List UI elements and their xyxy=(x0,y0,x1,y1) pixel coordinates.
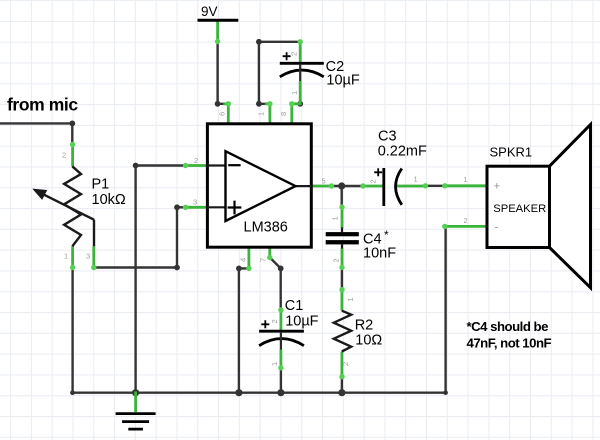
svg-text:C3: C3 xyxy=(378,128,397,144)
pin stub ground xyxy=(134,391,137,412)
svg-text:2: 2 xyxy=(194,156,198,165)
pin stub U1 pin6 xyxy=(223,104,228,124)
wire C2 pin1 to U1 pin8 xyxy=(292,103,300,105)
pin stub U1 pin5 xyxy=(311,185,331,188)
wire U1 pin7 to C1 pin2 xyxy=(270,258,281,311)
node endpoint C3 pin1 xyxy=(423,183,428,188)
speaker SPKR1 horn xyxy=(550,125,591,288)
wire SPKR1 pin2 to rail xyxy=(444,226,446,392)
svg-text:1: 1 xyxy=(64,252,68,261)
pin stub C1 pin1 xyxy=(279,350,282,368)
svg-text:2: 2 xyxy=(290,52,299,56)
svg-text:8: 8 xyxy=(279,112,288,116)
svg-text:2: 2 xyxy=(332,258,341,262)
pin stub U1 pin1 xyxy=(265,104,270,124)
node endpoint P1 pin2 xyxy=(70,142,75,147)
node endpoint C4 pin1 xyxy=(339,204,344,209)
pin stub R2 pin1 xyxy=(340,290,343,311)
svg-text:10nF: 10nF xyxy=(363,245,396,261)
node endpoint C1 pin1 xyxy=(278,365,283,370)
ground symbol xyxy=(116,414,156,430)
svg-text:-: - xyxy=(495,221,499,233)
capacitor C2 curved plate xyxy=(280,70,324,77)
capacitor C1 stem xyxy=(280,332,282,350)
wire C1 pin1 to rail xyxy=(280,368,282,393)
svg-text:6: 6 xyxy=(218,112,227,116)
wire R2 pin2 to rail xyxy=(341,377,343,393)
svg-text:LM386: LM386 xyxy=(244,220,288,236)
wire U1 pin5 to C3 pin2 xyxy=(331,185,363,187)
svg-text:2: 2 xyxy=(369,179,378,183)
pin stub C2 pin1 xyxy=(292,81,300,104)
svg-text:1: 1 xyxy=(257,112,266,116)
wire C2 pin2 to U1 pin1 xyxy=(259,42,300,104)
svg-text:*C4 should be: *C4 should be xyxy=(467,319,549,334)
node endpoint C4 pin2 xyxy=(339,265,344,270)
node bend rail left corner xyxy=(70,390,75,395)
wire U1 pin3 to P1 pin3 xyxy=(94,207,186,267)
svg-text:5: 5 xyxy=(322,177,326,186)
capacitor C4 top plate xyxy=(326,232,359,236)
pin stub 9V xyxy=(216,20,219,41)
node endpoint U1 pin2 xyxy=(183,163,188,168)
svg-text:1: 1 xyxy=(346,297,355,301)
node endpoint P1 pin3 xyxy=(91,265,96,270)
capacitor C1 plus plate xyxy=(259,330,304,333)
node bend pin7 jog xyxy=(278,266,284,272)
svg-text:10µF: 10µF xyxy=(285,313,318,329)
node bend C2 top-left xyxy=(256,39,262,45)
svg-text:3: 3 xyxy=(193,198,197,207)
capacitor C2 plus sign xyxy=(283,52,291,60)
speaker SPKR1 box xyxy=(487,166,550,247)
pin stub C1 pin2 xyxy=(279,310,282,331)
pin stub U1 pin7 xyxy=(268,247,271,257)
pin stub C3 pin1 xyxy=(397,185,426,188)
svg-text:2: 2 xyxy=(62,151,66,160)
svg-text:+: + xyxy=(494,181,500,193)
capacitor C2 stem xyxy=(299,64,301,81)
svg-text:SPEAKER: SPEAKER xyxy=(493,203,546,215)
node bend pin8 xyxy=(297,101,303,107)
svg-text:47nF, not 10nF: 47nF, not 10nF xyxy=(467,336,552,351)
node bend pin3 wire top xyxy=(174,204,180,210)
pin stub U1 pin2 xyxy=(186,164,208,167)
power symbol 9V xyxy=(198,19,239,22)
junction ground rail D xyxy=(338,389,345,396)
wire C3 pin1 to SPKR1 pin1 xyxy=(426,185,445,187)
pin stub C3 pin2 xyxy=(363,185,383,188)
op-amp U1 plus input mark xyxy=(228,201,242,215)
svg-text:9V: 9V xyxy=(201,4,218,19)
node endpoint U1 pin5 xyxy=(329,183,334,188)
svg-text:4: 4 xyxy=(239,258,248,262)
node endpoint R2 pin1 xyxy=(339,287,344,292)
node endpoint C3 pin2 xyxy=(360,183,365,188)
op-amp U1 minus input mark xyxy=(228,164,240,166)
capacitor C3 plus plate xyxy=(382,168,385,206)
pin stub R2 pin2 xyxy=(340,352,343,377)
capacitor C3 curved plate xyxy=(396,169,402,205)
node endpoint pin6 xyxy=(226,101,231,106)
pin stub U1 pin4 xyxy=(247,247,250,268)
junction ground rail C xyxy=(277,389,284,396)
node endpoint P1 pin1 xyxy=(70,265,75,270)
node endpoint pin8 xyxy=(289,101,294,106)
pin stub P1 pin3 xyxy=(92,246,95,267)
capacitor C3 plus sign xyxy=(374,168,382,176)
wire U1 pin4 to rail xyxy=(239,268,249,392)
svg-text:3: 3 xyxy=(86,252,90,261)
node endpoint C2 pin2 xyxy=(298,39,303,44)
wire C4 pin2 to R2 pin1 xyxy=(341,268,343,290)
pin stub C4 pin2 xyxy=(341,248,344,267)
node endpoint R2 pin2 xyxy=(339,374,344,379)
pin stub SPKR1 pin2 xyxy=(445,225,487,228)
capacitor C1 plus sign xyxy=(261,320,269,328)
svg-text:SPKR1: SPKR1 xyxy=(490,144,533,159)
wire P1 pin1 down to rail xyxy=(71,268,73,393)
potentiometer P1 zigzag xyxy=(64,166,81,246)
svg-text:1: 1 xyxy=(290,91,299,95)
svg-text:10Ω: 10Ω xyxy=(355,333,382,349)
node endpoint SPKR1 pin2 xyxy=(442,224,447,229)
node bend mic corner xyxy=(69,121,75,127)
svg-text:2: 2 xyxy=(270,319,279,323)
pin stub U1 pin3 xyxy=(186,206,208,209)
resistor R2 zigzag xyxy=(334,311,351,352)
node rail right end xyxy=(443,390,448,395)
svg-text:0.22mF: 0.22mF xyxy=(378,143,427,159)
wire U1 pin2 to ground rail xyxy=(136,166,186,393)
node bend 9V xyxy=(215,101,221,107)
svg-text:1: 1 xyxy=(270,362,279,366)
junction ground rail B xyxy=(235,389,242,396)
pin stub P1 pin1 xyxy=(71,246,74,267)
node endpoint U1 pin7 xyxy=(267,255,272,260)
svg-text:1: 1 xyxy=(331,216,340,220)
op-amp U1 triangle xyxy=(226,151,296,221)
node endpoint 9V-wire xyxy=(215,39,220,44)
capacitor C4 bottom plate xyxy=(326,240,359,244)
svg-text:10µF: 10µF xyxy=(326,72,359,88)
svg-text:P1: P1 xyxy=(92,177,110,193)
pin stub SPKR1 pin1 xyxy=(445,184,487,187)
wire from mic to P1 pin2 xyxy=(0,123,72,144)
node bend pin4 jog xyxy=(236,266,242,272)
svg-text:from mic: from mic xyxy=(7,95,78,115)
capacitor C1 curved plate xyxy=(259,339,304,346)
potentiometer P1 wiper arrow xyxy=(43,194,94,220)
pin stub C2 pin2 xyxy=(299,42,302,62)
node endpoint U1 pin4 xyxy=(246,266,251,271)
node endpoint pin1 xyxy=(267,101,272,106)
pin stub C4 pin1 xyxy=(341,207,344,228)
wire 9V to U1 pin6 xyxy=(218,42,229,104)
svg-text:1: 1 xyxy=(464,175,468,184)
svg-text:R2: R2 xyxy=(355,318,374,334)
node endpoint C1 pin2 xyxy=(278,307,283,312)
node endpoint SPKR1 pin1 xyxy=(442,183,447,188)
svg-text:C1: C1 xyxy=(285,298,304,314)
svg-text:10kΩ: 10kΩ xyxy=(92,192,126,208)
svg-text:7: 7 xyxy=(259,258,268,262)
wire output node to C4 pin1 xyxy=(341,186,343,207)
node bend pin2 wire xyxy=(133,163,139,169)
svg-text:2: 2 xyxy=(464,216,468,225)
node bend pin3 wire bottom xyxy=(174,265,180,271)
junction ground rail A xyxy=(132,389,139,396)
node bend pin1 xyxy=(256,101,262,107)
pin stub P1 pin2 xyxy=(71,144,74,166)
op-amp U1 internal leads xyxy=(207,166,311,208)
op-amp U1 LM386 body xyxy=(207,124,311,247)
pin stub U1 pin8 xyxy=(290,104,293,124)
wire ground rail xyxy=(73,392,446,394)
svg-text:1: 1 xyxy=(414,175,418,184)
potentiometer P1 wiper lead xyxy=(93,220,95,247)
node endpoint U1 pin3 xyxy=(183,205,188,210)
junction output node xyxy=(338,182,345,189)
capacitor C4 leads xyxy=(341,228,343,249)
svg-text:2: 2 xyxy=(341,362,350,366)
capacitor C2 plus plate xyxy=(280,62,324,65)
